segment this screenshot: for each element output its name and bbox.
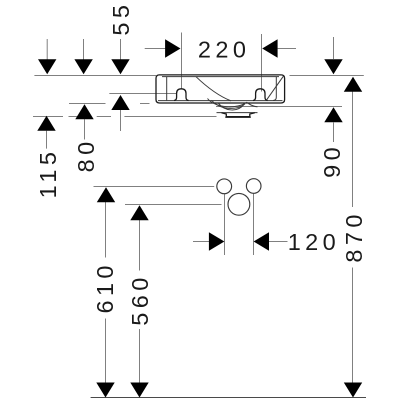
- basin outer body: [156, 75, 285, 103]
- basin left bracket bump: [174, 89, 189, 101]
- arrow left 120: [254, 232, 269, 250]
- arrow down 560 floor: [130, 383, 148, 398]
- basin right bracket bump: [253, 89, 268, 101]
- wire 55 reference line: [109, 93, 176, 95]
- hole circle large drain: [228, 193, 250, 215]
- wire 220 left tail: [145, 48, 166, 50]
- arrow up 55: [111, 95, 129, 110]
- wire 90 bottom tail: [333, 123, 335, 143]
- wire top arrow tail 1: [46, 39, 48, 60]
- svg-text:870: 870: [341, 210, 367, 262]
- wire 120 right tail: [269, 241, 288, 243]
- arrow down at top line 2: [74, 59, 92, 74]
- basin drain plate bottom: [225, 116, 251, 118]
- svg-text:220: 220: [198, 37, 250, 63]
- wire floor line: [91, 397, 366, 399]
- basin drain plate: [222, 113, 255, 117]
- svg-text:80: 80: [73, 137, 99, 172]
- arrow down 90 upper: [324, 59, 342, 74]
- arrow down 610 floor: [96, 383, 114, 398]
- wire 55 bottom tail: [120, 110, 122, 132]
- arrow up 115: [37, 116, 55, 131]
- svg-text:560: 560: [127, 273, 153, 325]
- wire 220 right extension: [261, 34, 263, 92]
- arrow left 220: [262, 39, 277, 57]
- svg-text:610: 610: [92, 261, 118, 313]
- hole circle small left: [217, 179, 232, 194]
- wire 560 reference line: [125, 204, 222, 206]
- basin drain recess arc: [219, 103, 244, 110]
- wire 610 dimension line upper: [105, 202, 107, 258]
- basin inner right vertical: [273, 77, 276, 101]
- wire 55 top tail: [120, 39, 122, 60]
- basin bottom chamfer line: [158, 100, 283, 102]
- wire 80 reference line: [69, 103, 106, 105]
- basin inner left vertical: [166, 77, 168, 101]
- arrow down 870 floor: [344, 383, 362, 398]
- wire 90 reference line: [216, 106, 342, 108]
- arrow up 80: [75, 104, 93, 119]
- svg-text:55: 55: [108, 1, 134, 36]
- wire 80 reference dash: [140, 103, 150, 105]
- wire 80 tail: [84, 119, 86, 139]
- basin underside right shoulder: [247, 102, 258, 107]
- wire 610 dimension line lower: [105, 319, 107, 383]
- wire 220 left extension: [181, 33, 183, 89]
- arrow up 870: [344, 77, 362, 92]
- arrow down at top line 3 (55): [111, 59, 129, 74]
- wire 870 dimension line upper: [352, 92, 354, 208]
- arrow right 220: [165, 39, 180, 57]
- wire hole centerline left: [224, 194, 226, 255]
- basin bowl sweep curve: [196, 77, 231, 101]
- wire 560 dimension line upper: [139, 220, 141, 271]
- wire 120 left tail: [193, 241, 209, 243]
- basin underside arc outer: [208, 99, 247, 107]
- wire top arrow tail 2: [83, 39, 85, 60]
- wire 610 reference line: [94, 186, 215, 188]
- wire top reference line left: [34, 75, 156, 77]
- wire top reference line right: [290, 75, 364, 77]
- arrow down at top line 1: [38, 59, 56, 74]
- wire 115 tail: [46, 131, 48, 149]
- wire 560 dimension line lower: [139, 329, 141, 383]
- wire 870 dimension line lower: [352, 268, 354, 383]
- arrow up 90 lower: [324, 107, 342, 122]
- wire 115 dash line: [33, 116, 217, 118]
- svg-text:115: 115: [35, 148, 61, 199]
- svg-text:90: 90: [319, 143, 345, 178]
- hole circle small right: [246, 179, 261, 194]
- wire hole centerline right: [253, 193, 255, 255]
- wire 220 right tail: [278, 48, 296, 50]
- basin underside arc mid: [212, 100, 246, 108]
- basin right diagonal: [266, 76, 283, 100]
- arrow right 120: [209, 232, 225, 250]
- basin inner top line: [162, 76, 279, 78]
- arrow up 560: [130, 205, 148, 220]
- svg-text:120: 120: [288, 229, 340, 255]
- arrow up 610: [97, 187, 115, 202]
- basin drain plate top line: [217, 112, 258, 114]
- wire 90 top tail: [333, 37, 335, 59]
